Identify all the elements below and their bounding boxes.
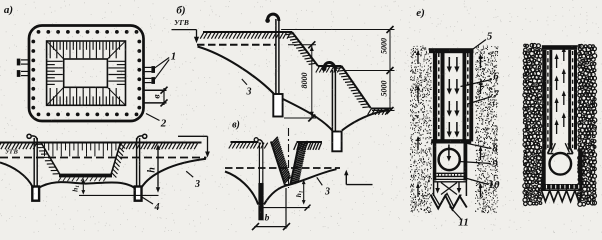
svg-text:2: 2 xyxy=(160,118,167,130)
svg-text:8: 8 xyxy=(492,143,498,155)
svg-text:3: 3 xyxy=(194,179,200,190)
svg-text:1: 1 xyxy=(171,51,177,63)
svg-text:h: h xyxy=(147,167,158,173)
svg-text:УГВ: УГВ xyxy=(174,18,189,27)
svg-text:5: 5 xyxy=(487,31,493,43)
svg-text:10: 10 xyxy=(489,179,501,191)
svg-text:4: 4 xyxy=(154,202,160,213)
svg-text:в): в) xyxy=(232,120,240,131)
svg-text:7: 7 xyxy=(493,89,499,101)
svg-text:е): е) xyxy=(416,7,425,19)
svg-text:9: 9 xyxy=(492,158,498,170)
svg-text:в: в xyxy=(152,94,162,99)
svg-text:3: 3 xyxy=(246,87,252,98)
svg-text:6: 6 xyxy=(493,71,499,83)
svg-text:5000: 5000 xyxy=(380,38,389,54)
svg-text:5000: 5000 xyxy=(380,81,389,97)
svg-text:б): б) xyxy=(176,5,185,17)
svg-text:8000: 8000 xyxy=(300,73,309,89)
svg-text:а): а) xyxy=(4,4,13,16)
svg-text:b: b xyxy=(265,214,270,224)
svg-text:3: 3 xyxy=(324,187,330,198)
